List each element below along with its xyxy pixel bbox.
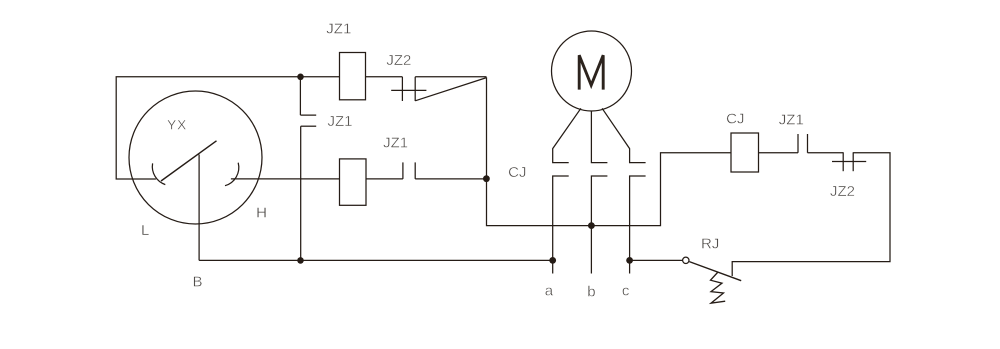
contact JZ2 (time-delay NC contact, top) xyxy=(391,77,486,101)
contact H arc xyxy=(225,163,239,186)
junction dot: top node xyxy=(297,74,304,81)
motor M xyxy=(552,31,632,111)
svg-text:a: a xyxy=(545,282,554,299)
wire: row-2 coil to JZ1 contact xyxy=(366,178,403,180)
RJ switch blade xyxy=(689,262,741,281)
wire: JZ1 to JZ2 (right) xyxy=(808,152,844,154)
wire: bottom rail from B corner to phase a xyxy=(199,259,553,261)
svg-text:L: L xyxy=(141,222,149,239)
junction dot: node a on bottom rail xyxy=(549,257,556,264)
motor lead + CJ main contact a (upper) xyxy=(553,108,581,162)
contact JZ1 (NO, right) xyxy=(798,134,808,153)
motor lead + CJ main contact b (upper) xyxy=(591,111,607,163)
junction dot: CJ branch node xyxy=(483,175,490,182)
meter needle xyxy=(161,141,217,181)
svg-text:JZ1: JZ1 xyxy=(383,134,408,151)
wire: CJ coil to JZ1 contact (right) xyxy=(759,152,799,154)
wire: H contact to row-2 coil xyxy=(231,178,340,180)
contact JZ1 (NO, vertical in left branch) xyxy=(300,115,316,126)
wire: CJ node down, right, up to coil branch xyxy=(487,153,732,226)
wire: top junction down to vertical contact xyxy=(299,77,301,115)
wire: JZ2 right, down, back to RJ contact stub xyxy=(732,153,890,276)
junction dot: bottom-left node xyxy=(297,257,304,264)
contact JZ2 (NC, right) xyxy=(832,152,866,171)
relay coil (row 2) xyxy=(340,159,367,205)
contact JZ1 (NO, row 2) xyxy=(403,162,415,179)
svg-text:JZ1: JZ1 xyxy=(327,113,352,130)
wire: JZ1 contact to CJ node xyxy=(415,178,486,180)
svg-text:JZ2: JZ2 xyxy=(830,183,855,200)
contactor coil CJ xyxy=(731,133,759,172)
RJ terminal circle xyxy=(683,257,689,263)
junction dot: node c on bottom rail xyxy=(626,257,633,264)
svg-text:B: B xyxy=(192,274,202,291)
svg-text:H: H xyxy=(256,204,267,221)
RJ heater zigzag xyxy=(711,272,726,303)
svg-text:JZ1: JZ1 xyxy=(326,20,351,37)
wire: left outer loop from L contact up and right to top junction xyxy=(116,77,300,179)
CJ main contact c (lower) + wire phase c xyxy=(630,176,646,274)
svg-text:CJ: CJ xyxy=(726,111,744,128)
contact L arc xyxy=(152,163,165,184)
svg-text:CJ: CJ xyxy=(508,164,526,181)
wire: top junction to JZ1 coil xyxy=(301,76,340,78)
svg-text:RJ: RJ xyxy=(701,236,719,253)
wire: needle pivot B down to bottom rail xyxy=(198,155,200,261)
CJ main contact a (lower) + wire phase a xyxy=(553,176,569,274)
wire: JZ2 contact down to CJ node xyxy=(486,77,488,178)
wire: node c to RJ terminal xyxy=(630,259,683,261)
svg-text:JZ1: JZ1 xyxy=(779,112,804,129)
motor lead + CJ main contact c (upper) xyxy=(602,108,646,162)
CJ main contact b (lower) + wire phase b xyxy=(591,176,607,274)
wire: JZ1 coil to JZ2 contact xyxy=(366,76,403,78)
svg-text:c: c xyxy=(622,282,630,299)
svg-text:YX: YX xyxy=(167,116,187,132)
svg-text:b: b xyxy=(587,284,595,301)
relay coil JZ1 (top) xyxy=(340,53,366,100)
junction dot: node b on CJ branch xyxy=(588,222,595,229)
svg-text:JZ2: JZ2 xyxy=(386,52,411,69)
meter YX circle xyxy=(129,91,262,224)
wire: vertical contact down to bottom rail xyxy=(300,126,302,260)
